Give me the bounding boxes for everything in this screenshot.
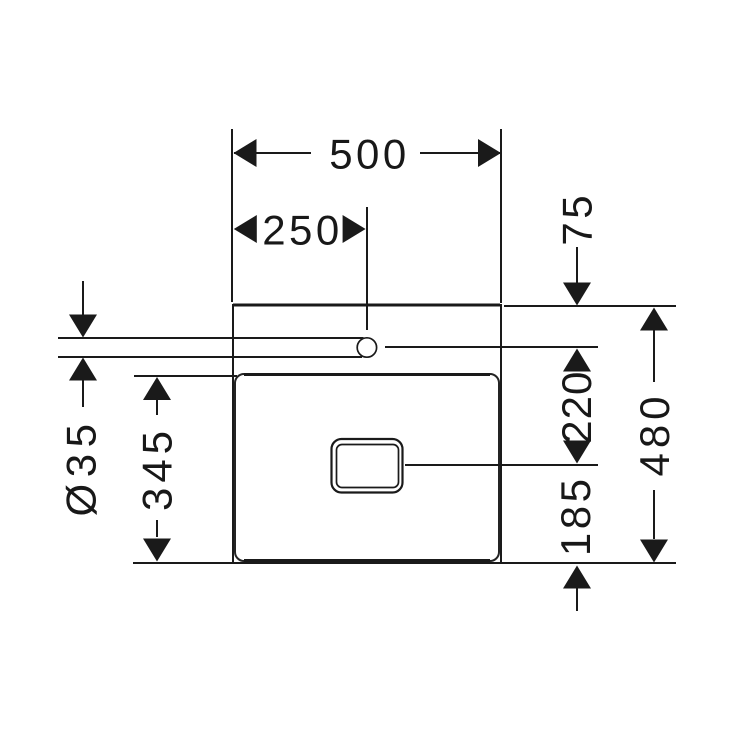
drain outer rounded rectangle — [332, 439, 403, 493]
basin outer rectangle — [233, 305, 501, 563]
dim 220 down arrow — [563, 441, 591, 464]
dim O35 upper stem — [82, 281, 84, 315]
dim 345 down arrow — [143, 539, 171, 562]
dim 185 up arrow below bottom line — [563, 566, 591, 589]
bowl top rim thick edge — [244, 373, 490, 376]
svg-text:345: 345 — [134, 426, 181, 511]
svg-text:480: 480 — [631, 391, 678, 476]
svg-text:75: 75 — [554, 192, 601, 246]
faucet hole lower tangent line — [58, 356, 362, 358]
top edge extension line to the right — [504, 305, 676, 307]
svg-text:220: 220 — [553, 371, 600, 444]
basin inner bowl rounded rectangle — [235, 374, 499, 561]
dim O35 down arrow — [69, 315, 97, 338]
dim 500 left extension line — [231, 129, 233, 302]
dim 480 down arrow — [640, 540, 668, 563]
dim O35 up arrow — [69, 358, 97, 381]
dim 500 line right segment — [420, 152, 500, 154]
dim 75 down arrow — [563, 283, 591, 306]
faucet hole upper tangent line — [58, 337, 364, 339]
dim 75 stem — [576, 247, 578, 284]
dim 345 upper stem — [156, 400, 158, 415]
basin top edge thick — [233, 304, 500, 307]
dim 500 right arrow — [478, 139, 501, 167]
long bottom extension line — [133, 562, 676, 564]
svg-text:250: 250 — [262, 207, 343, 254]
svg-text:Ø35: Ø35 — [58, 418, 105, 517]
dim 250 left arrow — [234, 215, 257, 243]
dim 480 lower stem — [653, 490, 655, 539]
dim 220 up arrow — [563, 349, 591, 372]
dim 345 top extension line — [134, 375, 237, 377]
dim O35 lower stem — [82, 380, 84, 407]
faucet hole circle — [357, 338, 376, 357]
svg-text:185: 185 — [552, 476, 599, 557]
dim 500 left arrow — [234, 139, 257, 167]
drain reference line to the right — [405, 464, 598, 466]
dim 345 lower stem — [156, 520, 158, 537]
dim 480 up arrow — [640, 308, 668, 331]
dim 480 upper stem — [653, 330, 655, 382]
faucet centerline to the right — [385, 346, 598, 348]
dim 185 stem — [576, 588, 578, 611]
bowl bottom rim thick edge — [244, 559, 490, 562]
dim 500 line left segment — [234, 152, 311, 154]
dim 250 right extension line down to faucet hole — [366, 207, 368, 330]
svg-text:500: 500 — [329, 131, 410, 178]
dim 500 right extension line — [500, 129, 502, 303]
dim 345 up arrow — [143, 377, 171, 400]
dim 250 right arrow — [343, 215, 366, 243]
drain inner rounded rectangle — [337, 445, 399, 488]
